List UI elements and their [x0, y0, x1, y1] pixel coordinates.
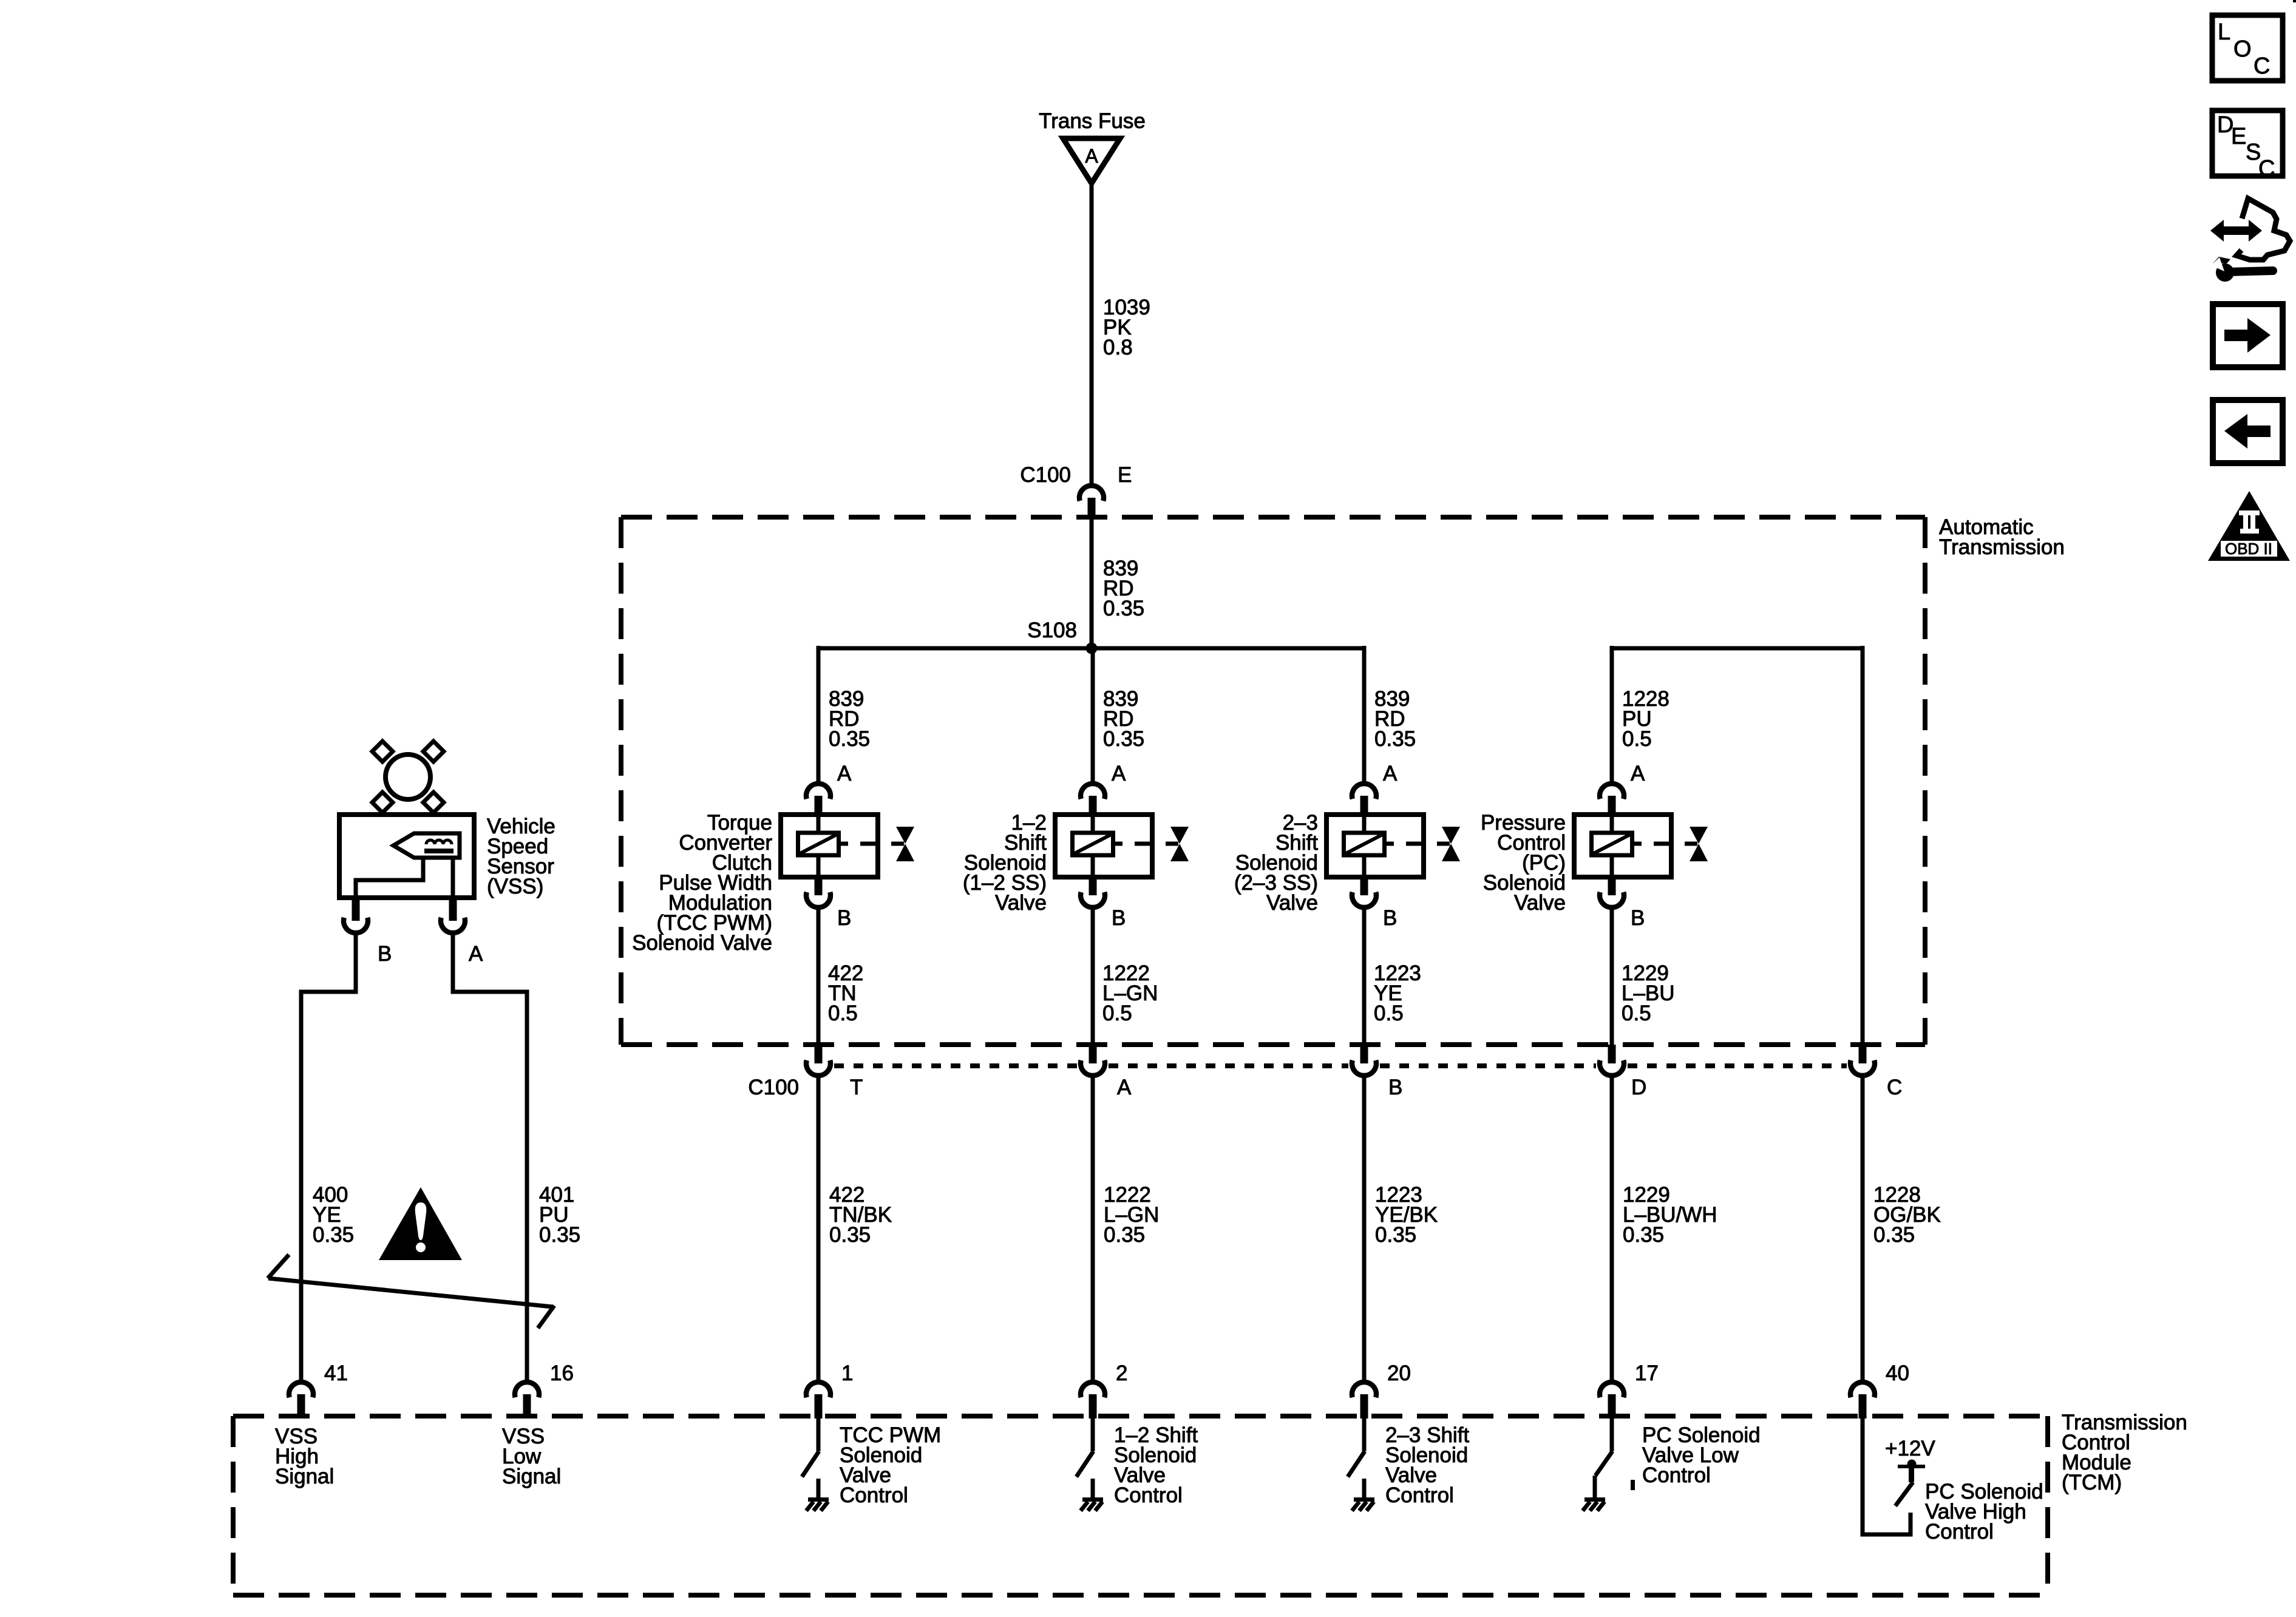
- svg-text:Valve: Valve: [995, 891, 1047, 915]
- wire 839 RD 0.35 drop to solenoid (x=1800): [1091, 646, 1095, 782]
- connector pin B of solenoid (x=1800): [1081, 877, 1126, 930]
- svg-text:0.35: 0.35: [1623, 1223, 1664, 1247]
- svg-text:O: O: [2233, 36, 2252, 62]
- label TCC PWM Solenoid Valve Control: [840, 1423, 941, 1507]
- connector pin B of VSS: [344, 898, 392, 966]
- svg-text:0.35: 0.35: [829, 1223, 871, 1247]
- connector C100 pin B: [1352, 1045, 1402, 1099]
- svg-text:0.8: 0.8: [1103, 336, 1133, 359]
- label wire 1222 L–GN 0.35: [1104, 1183, 1159, 1247]
- svg-text:0.35: 0.35: [1104, 1223, 1145, 1247]
- svg-text:A: A: [1085, 145, 1098, 167]
- svg-text:C: C: [2254, 53, 2270, 79]
- icon: OBD II triangle: [2208, 491, 2290, 561]
- wire 1222 L–GN 0.5 from solenoid B to C100: [1091, 909, 1095, 1045]
- svg-text:(VSS): (VSS): [487, 875, 543, 898]
- svg-text:B: B: [378, 942, 392, 966]
- connector C100 pin C: [1850, 1045, 1902, 1099]
- svg-text:T: T: [850, 1076, 863, 1099]
- connector TCM pin 16: [515, 1361, 574, 1419]
- svg-text:Control: Control: [1114, 1483, 1183, 1507]
- label PC Solenoid Valve High Control: [1925, 1480, 2043, 1544]
- connector TCM pin 2: [1081, 1361, 1127, 1419]
- svg-text:0.35: 0.35: [1375, 1223, 1416, 1247]
- svg-text:17: 17: [1635, 1361, 1659, 1385]
- svg-text:Valve: Valve: [1514, 891, 1566, 915]
- connector C100 in-line (dotted line): [834, 1063, 1847, 1068]
- svg-text:0.35: 0.35: [1103, 727, 1144, 751]
- connector TCM pin 20: [1352, 1361, 1411, 1419]
- icon: vehicle swap / tool: [2210, 198, 2290, 282]
- solenoid: 1-2 Shift Solenoid (1-2 SS) Valve: [963, 811, 1189, 915]
- svg-text:0.35: 0.35: [1374, 727, 1416, 751]
- svg-text:B: B: [837, 906, 851, 930]
- svg-text:E: E: [1118, 463, 1132, 487]
- connector C100 pin E: [1020, 463, 1132, 520]
- vehicle speed sensor VSS: reluctor wheel symbol: [372, 741, 444, 813]
- connector pin B of solenoid (x=2655): [1600, 877, 1645, 930]
- wire 839 RD 0.35 drop to solenoid (x=1348): [817, 646, 821, 782]
- svg-text:(TCM): (TCM): [2062, 1471, 2122, 1494]
- svg-text:A: A: [1631, 762, 1645, 785]
- TCM driver switch to ground (pin 17, PC solenoid valve low): [1583, 1419, 1635, 1511]
- svg-text:Control: Control: [840, 1483, 908, 1507]
- svg-text:Signal: Signal: [275, 1465, 334, 1488]
- label wire 839 RD 0.35: [1374, 687, 1416, 751]
- label wire 1223 YE/BK 0.35: [1375, 1183, 1438, 1247]
- svg-text:2: 2: [1116, 1361, 1127, 1385]
- svg-text:Solenoid Valve: Solenoid Valve: [632, 931, 772, 955]
- svg-text:41: 41: [324, 1361, 348, 1385]
- svg-text:A: A: [1117, 1076, 1132, 1099]
- icon: LOC box: [2212, 15, 2283, 81]
- twisted pair marker across VSS wires: [268, 1255, 554, 1328]
- connector pin B of solenoid (x=2247): [1352, 877, 1397, 930]
- wire 839 RD 0.35 drop to solenoid (x=2247): [1362, 646, 1367, 782]
- svg-text:0.35: 0.35: [829, 727, 870, 751]
- vehicle speed sensor VSS body: [339, 815, 555, 898]
- fuse symbol: Trans Fuse (fusible link triangle A): [1039, 109, 1146, 183]
- svg-text:S108: S108: [1027, 619, 1077, 642]
- svg-text:0.5: 0.5: [1622, 1002, 1651, 1025]
- wire 422 TN 0.5 from solenoid B to C100: [817, 909, 821, 1045]
- svg-text:0.35: 0.35: [313, 1223, 354, 1247]
- svg-text:0.5: 0.5: [1374, 1002, 1404, 1025]
- TCM input VSS Low Signal (pin 16): [502, 1425, 561, 1488]
- connector pin A of solenoid (x=1348): [806, 762, 852, 816]
- svg-text:C: C: [1887, 1076, 1902, 1099]
- svg-text:Control: Control: [1925, 1520, 1994, 1544]
- wire 400 YE 0.35 from VSS B to TCM pin 41: [301, 935, 356, 1380]
- label wire 839 RD 0.35: [1103, 687, 1144, 751]
- wire 1229 L–BU/WH 0.35 from C100 to TCM: [1610, 1078, 1614, 1380]
- TCM low-side driver switch to ground (pin 20): [1348, 1419, 1374, 1511]
- component box: Transmission Control Module TCM (dashed outline): [233, 1411, 2187, 1595]
- connector C100 pin T: [748, 1045, 863, 1099]
- svg-text:D: D: [1631, 1076, 1646, 1099]
- svg-text:E: E: [2231, 124, 2246, 149]
- svg-text:0.35: 0.35: [1873, 1223, 1915, 1247]
- connector C100 pin A: [1081, 1045, 1132, 1099]
- page corner mark: [2293, 0, 2296, 2]
- connector pin B of solenoid (x=1348): [806, 877, 851, 930]
- label 2–3 Shift Solenoid Valve Control: [1385, 1423, 1469, 1507]
- wire 1228 PU 0.5 branch (PC solenoid high feed): [1612, 646, 1863, 1045]
- svg-text:Valve: Valve: [1266, 891, 1318, 915]
- TCM input VSS High Signal (pin 41): [275, 1425, 334, 1488]
- svg-text:B: B: [1388, 1076, 1402, 1099]
- svg-text:B: B: [1112, 906, 1126, 930]
- svg-text:16: 16: [550, 1361, 574, 1385]
- wire 1223 YE 0.5 from solenoid B to C100: [1362, 909, 1367, 1045]
- solenoid: Pressure Control (PC) Solenoid Valve: [1481, 811, 1708, 915]
- svg-text:A: A: [837, 762, 852, 785]
- connector TCM pin 40: [1850, 1361, 1909, 1419]
- svg-text:A: A: [1112, 762, 1126, 785]
- svg-text:0.5: 0.5: [828, 1002, 858, 1025]
- label wire 839 RD 0.35 (above S108): [1103, 557, 1144, 620]
- wire 422 TN/BK 0.35 from C100 to TCM: [817, 1078, 821, 1380]
- connector TCM pin 1: [806, 1361, 853, 1419]
- label wire 1228 OG/BK 0.35: [1873, 1183, 1941, 1247]
- svg-text:0.5: 0.5: [1102, 1002, 1132, 1025]
- svg-text:C: C: [2258, 156, 2275, 181]
- wire 1229 L–BU 0.5 from solenoid B to C100: [1610, 909, 1614, 1045]
- label PC Solenoid Valve Low Control: [1642, 1423, 1761, 1487]
- icon: back arrow box: [2213, 400, 2283, 463]
- label 1–2 Shift Solenoid Valve Control: [1114, 1423, 1198, 1507]
- label wire 839 RD 0.35: [829, 687, 870, 751]
- svg-text:20: 20: [1387, 1361, 1411, 1385]
- svg-text:C100: C100: [1020, 463, 1071, 487]
- svg-text:A: A: [1383, 762, 1398, 785]
- connector TCM pin 17: [1600, 1361, 1659, 1419]
- icon: forward arrow box: [2213, 304, 2283, 367]
- svg-text:B: B: [1383, 906, 1397, 930]
- svg-text:+12V: +12V: [1885, 1437, 1935, 1460]
- solenoid: 2-3 Shift Solenoid (2-3 SS) Valve: [1234, 811, 1460, 915]
- wire 839 RD 0.35 from C100 E down to splice S108: [1090, 518, 1094, 648]
- connector pin A of solenoid (x=2247): [1352, 762, 1398, 816]
- wire 1228 OG/BK 0.35 from C100 to TCM: [1861, 1078, 1865, 1380]
- label wire 1222 L–GN 0.5: [1102, 961, 1158, 1025]
- icon: DESC box: [2212, 110, 2283, 181]
- svg-text:L: L: [2218, 19, 2230, 45]
- wire 1222 L–GN 0.35 from C100 to TCM: [1091, 1078, 1095, 1380]
- connector TCM pin 41: [289, 1361, 348, 1419]
- connector pin A of solenoid (x=1800): [1081, 762, 1126, 816]
- svg-text:OBD II: OBD II: [2225, 540, 2272, 558]
- TCM low-side driver switch to ground (pin 2): [1076, 1419, 1103, 1511]
- label wire 1229 L–BU/WH 0.35: [1623, 1183, 1717, 1247]
- connector pin A of solenoid (x=2655): [1600, 762, 1645, 816]
- label wire 422 TN/BK 0.35: [829, 1183, 892, 1247]
- svg-text:0.35: 0.35: [1103, 597, 1144, 620]
- svg-text:B: B: [1631, 906, 1645, 930]
- svg-text:0.5: 0.5: [1622, 727, 1652, 751]
- label wire 1223 YE 0.5: [1374, 961, 1421, 1025]
- label wire 1039 PK 0.8: [1103, 296, 1150, 359]
- svg-text:40: 40: [1886, 1361, 1909, 1385]
- wire 401 PU 0.35 from VSS A to TCM pin 16: [453, 935, 527, 1380]
- label wire 401 PU 0.35: [539, 1183, 580, 1247]
- splice S108 (junction dot and bus rail): [818, 619, 1364, 654]
- label wire 400 YE 0.35: [313, 1183, 354, 1247]
- svg-text:Trans Fuse: Trans Fuse: [1039, 109, 1146, 133]
- svg-text:Control: Control: [1385, 1483, 1454, 1507]
- svg-text:Control: Control: [1642, 1463, 1711, 1487]
- svg-text:Signal: Signal: [502, 1465, 561, 1488]
- label wire 422 TN 0.5: [828, 961, 863, 1025]
- label wire 1228 PU 0.5: [1622, 687, 1669, 751]
- TCM high-side driver switch to +12V (pin 40, PC solenoid valve high): [1863, 1419, 1935, 1534]
- svg-text:Transmission: Transmission: [1939, 535, 2065, 559]
- wire 1039 PK 0.8 from Trans Fuse to C100 pin E: [1090, 182, 1094, 483]
- solenoid: Torque Converter Clutch PWM (TCC PWM) Solenoid Valve: [632, 811, 914, 955]
- warning note triangle (exclamation): [379, 1187, 462, 1260]
- connector C100 pin D: [1600, 1045, 1646, 1099]
- TCM low-side driver switch to ground (pin 1): [802, 1419, 829, 1511]
- connector pin A of VSS: [441, 898, 483, 966]
- wire 1223 YE/BK 0.35 from C100 to TCM: [1362, 1078, 1367, 1380]
- component box: Automatic Transmission (dashed outline): [621, 515, 2065, 1045]
- svg-text:C100: C100: [748, 1076, 799, 1099]
- svg-text:0.35: 0.35: [539, 1223, 580, 1247]
- label wire 1229 L–BU 0.5: [1622, 961, 1675, 1025]
- svg-text:A: A: [469, 942, 483, 966]
- svg-text:1: 1: [841, 1361, 853, 1385]
